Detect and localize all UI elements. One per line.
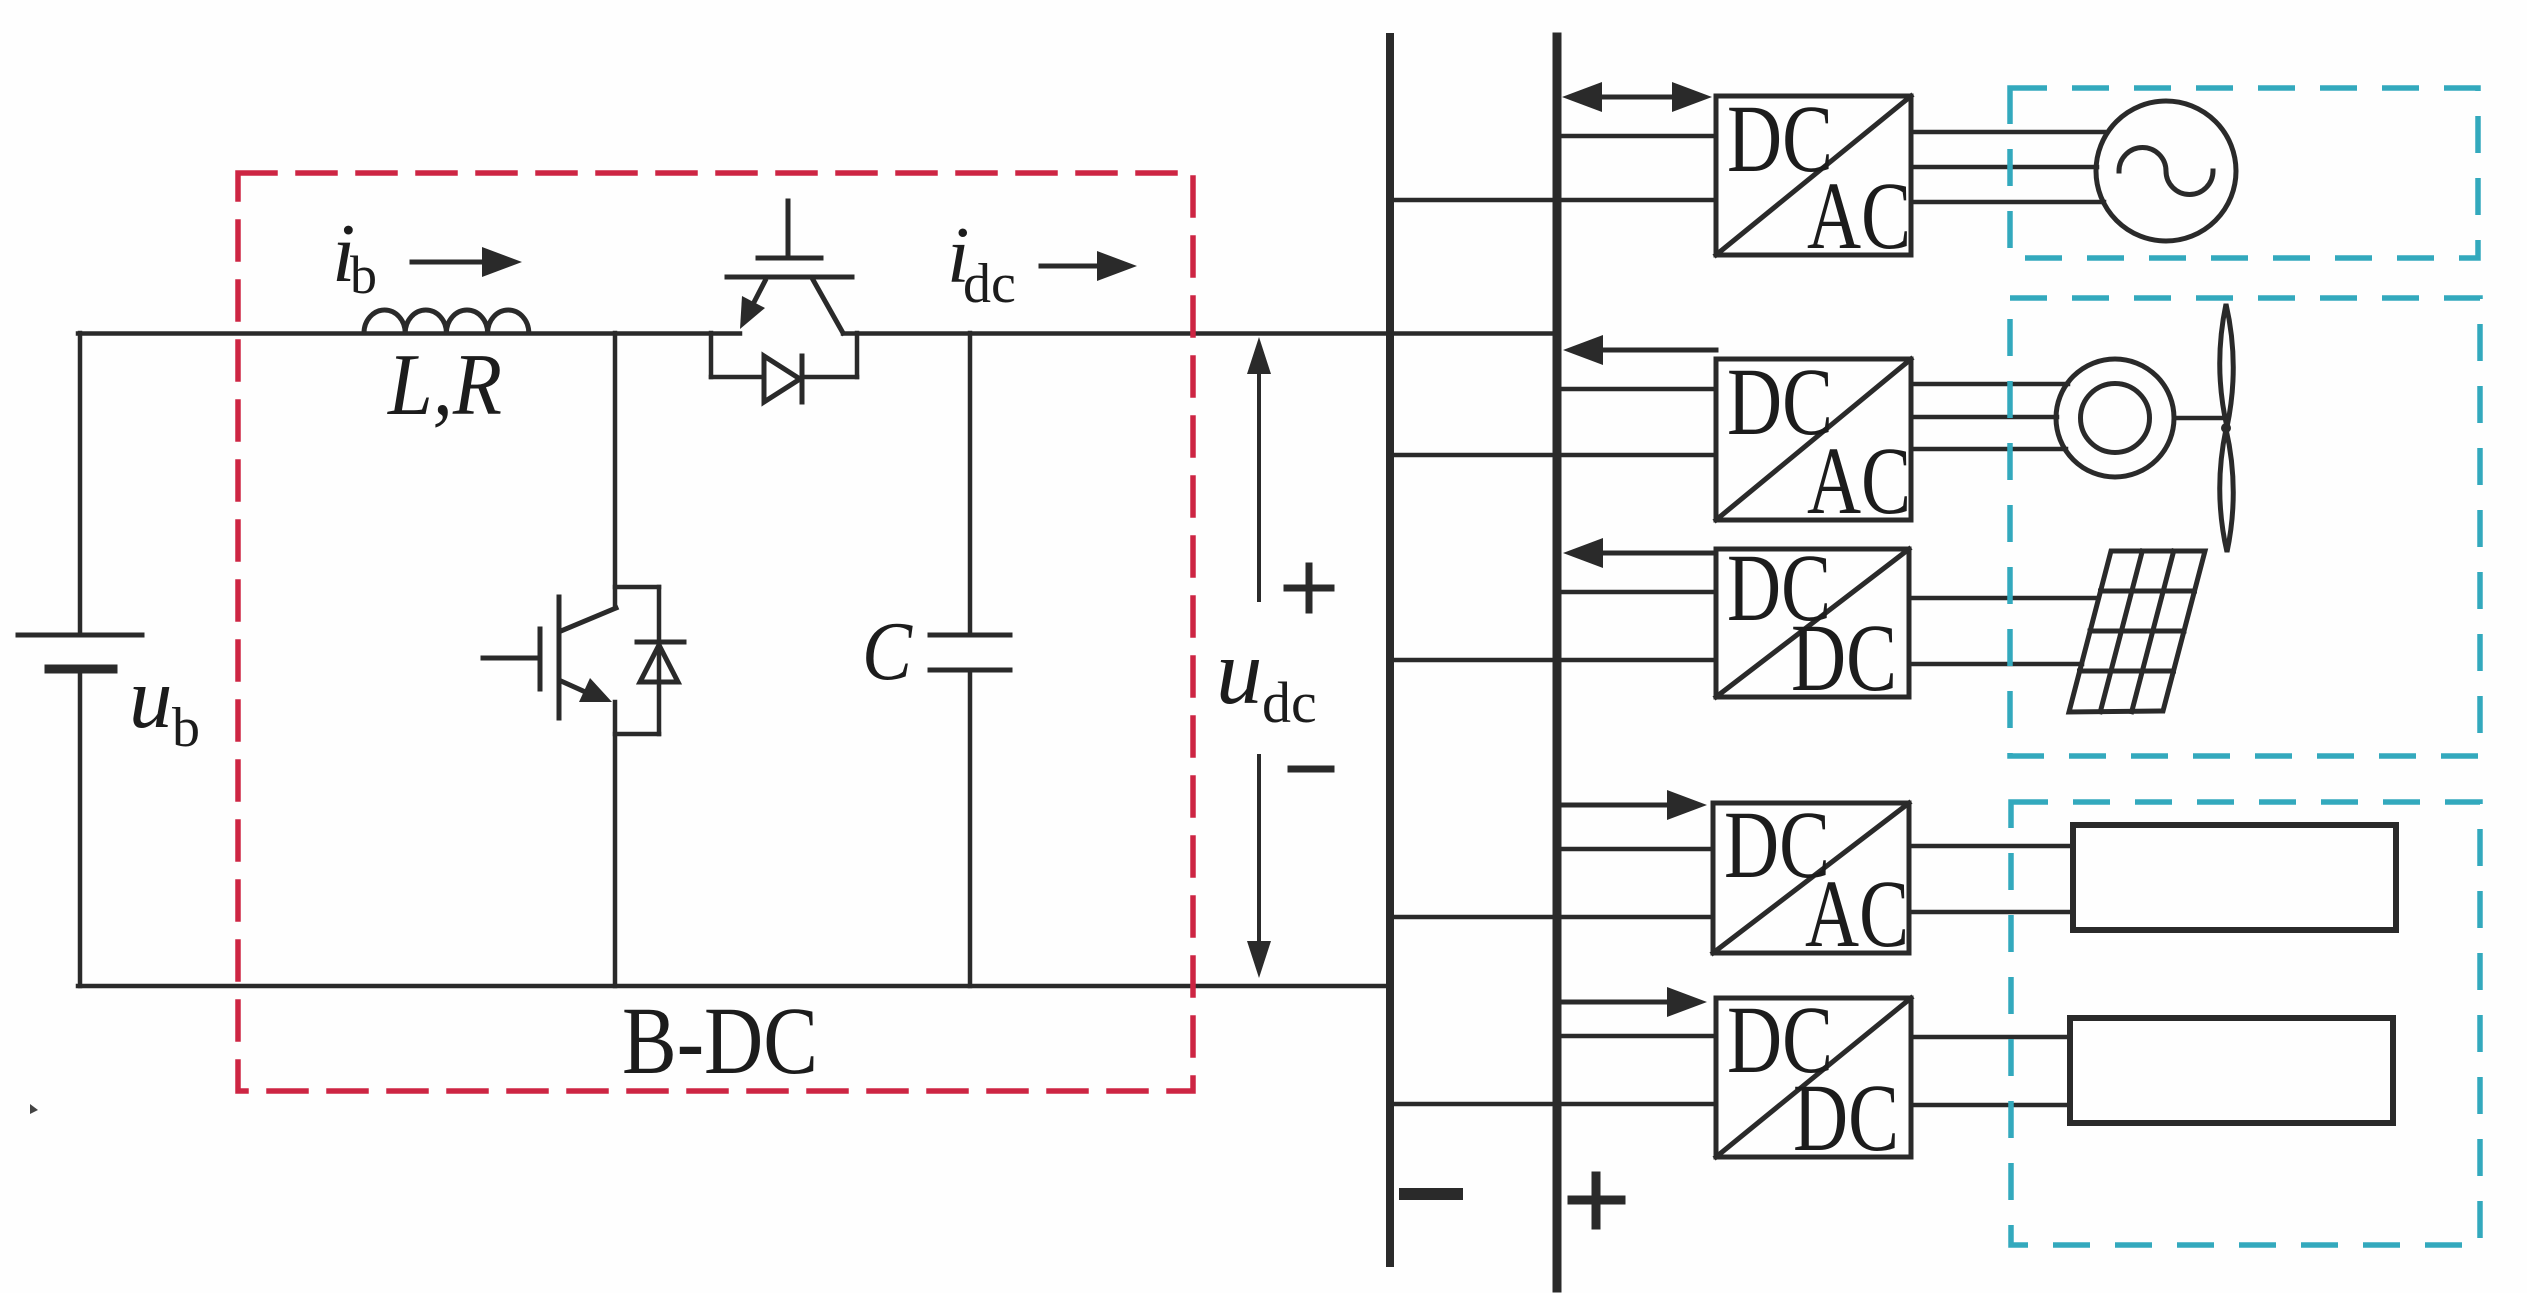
label U4 DC xyxy=(1724,791,1830,898)
wire U4 load b xyxy=(1909,910,2073,915)
wire arrow converter U5 xyxy=(1559,987,1707,1017)
svg-text:AC: AC xyxy=(1805,860,1909,967)
label C xyxy=(862,605,913,698)
wire U2 plus xyxy=(1561,387,1716,392)
label i_b xyxy=(332,207,377,305)
svg-text:AC: AC xyxy=(1807,427,1911,534)
converter U3 DC/DC xyxy=(1716,549,1909,697)
wire branch to IGBT Q2 collector xyxy=(613,333,618,608)
wire U3 pv plus xyxy=(1909,596,2098,601)
label U3 DC top xyxy=(1727,534,1831,641)
cyan dashed box renewable sources xyxy=(2010,298,2480,756)
label plus of bus xyxy=(1572,1176,1621,1225)
svg-text:DC: DC xyxy=(1793,1064,1899,1171)
converter U5 DC/DC xyxy=(1716,998,1911,1157)
wire U2 minus xyxy=(1390,453,1716,458)
inductor L,R xyxy=(364,310,529,333)
capacitor C branch top xyxy=(968,333,973,635)
capacitor C branch bottom xyxy=(968,670,973,986)
svg-text:DC: DC xyxy=(1791,604,1897,711)
diode D1 loop xyxy=(711,333,857,377)
wire U3 minus xyxy=(1390,658,1716,663)
label U3 DC bottom xyxy=(1791,604,1897,711)
wire arrow converter U3 xyxy=(1563,538,1716,568)
label U5 DC bottom xyxy=(1793,1064,1899,1171)
label U5 DC top xyxy=(1727,986,1833,1093)
cyan dashed box AC grid xyxy=(2010,88,2478,258)
load rectangle AC load xyxy=(2073,825,2396,930)
wire U1 phase c xyxy=(1911,200,2104,205)
converter U2 DC/AC xyxy=(1716,359,1911,520)
DC bus negative bar xyxy=(1386,37,1394,1263)
AC grid source G1 xyxy=(2096,101,2236,241)
wire U2 phase a xyxy=(1911,382,2068,387)
wire top rail left of IGBT Q1 xyxy=(78,331,740,336)
IGBT Q1 xyxy=(727,201,852,333)
svg-text:AC: AC xyxy=(1807,162,1911,269)
label U1 DC xyxy=(1727,85,1833,192)
svg-text:dc: dc xyxy=(963,253,1016,315)
label minus of bus xyxy=(1405,1188,1457,1200)
wire U5 load b xyxy=(1911,1103,2070,1108)
label i_dc xyxy=(947,210,1016,315)
wire U5 minus xyxy=(1390,1102,1716,1107)
wind turbine blades xyxy=(2220,304,2234,552)
wire Q2 emitter down xyxy=(613,702,618,986)
wire U4 minus xyxy=(1390,915,1713,920)
converter U4 DC/AC xyxy=(1713,803,1909,953)
svg-text:L,R: L,R xyxy=(386,337,502,434)
wire arrow converter U4 xyxy=(1559,790,1707,820)
svg-text:u: u xyxy=(1216,621,1263,724)
stray mark bottom left xyxy=(30,1104,38,1114)
label u_dc xyxy=(1216,621,1317,735)
wire double arrow converter U1 xyxy=(1562,82,1712,112)
wire arrow converter U2 xyxy=(1563,335,1716,365)
wire U3 plus xyxy=(1561,590,1716,595)
solar panel PV xyxy=(2069,551,2205,712)
wire U5 load a xyxy=(1911,1035,2070,1040)
label u_b xyxy=(129,649,200,759)
wire U3 pv minus xyxy=(1909,662,2082,667)
label U4 AC xyxy=(1805,860,1909,967)
converter U1 DC/AC xyxy=(1716,96,1911,255)
diode D2 branch xyxy=(657,587,662,734)
wire U2 phase c xyxy=(1911,447,2066,452)
wire U5 plus xyxy=(1561,1034,1716,1039)
svg-text:u: u xyxy=(129,649,173,746)
wire U4 plus xyxy=(1561,847,1713,852)
label U1 AC xyxy=(1807,162,1911,269)
svg-text:b: b xyxy=(172,697,200,759)
capacitor C xyxy=(930,635,1010,670)
arrow i_dc xyxy=(1041,251,1137,281)
wire top rail right of IGBT Q1 xyxy=(843,331,1557,336)
wire emitter to diode D2 xyxy=(615,732,659,737)
label U2 AC xyxy=(1807,427,1911,534)
wire U2 phase b xyxy=(1911,415,2057,420)
svg-text:B-DC: B-DC xyxy=(622,987,818,1094)
label + of u_dc xyxy=(1287,566,1331,610)
label B-DC xyxy=(622,987,818,1094)
IGBT Q2 xyxy=(483,597,616,718)
wire U1 phase b xyxy=(1911,165,2097,170)
wire bottom rail xyxy=(78,984,1390,989)
battery u_b xyxy=(18,333,142,986)
wind generator M xyxy=(2056,359,2174,477)
label U2 DC xyxy=(1727,348,1833,455)
diode D1 xyxy=(764,356,802,402)
diode D2 xyxy=(637,642,684,682)
cyan dashed box loads xyxy=(2011,802,2480,1245)
wire U1 minus xyxy=(1390,198,1716,203)
red dashed box B-DC xyxy=(238,173,1193,1091)
svg-text:dc: dc xyxy=(1262,670,1317,735)
load rectangle DC load xyxy=(2070,1018,2393,1123)
wire U1 phase a xyxy=(1911,130,2104,135)
dimension arrow u_dc xyxy=(1247,337,1271,978)
arrow i_b xyxy=(412,247,522,277)
wire U4 load a xyxy=(1909,844,2073,849)
wire U1 plus xyxy=(1561,134,1716,139)
wire turbine shaft xyxy=(2174,416,2222,421)
wire collector to diode D2 xyxy=(615,585,659,590)
svg-text:b: b xyxy=(350,245,377,305)
DC bus positive bar xyxy=(1553,37,1562,1288)
svg-text:C: C xyxy=(862,605,913,698)
label L,R xyxy=(386,337,502,434)
label minus of u_dc xyxy=(1291,766,1331,773)
